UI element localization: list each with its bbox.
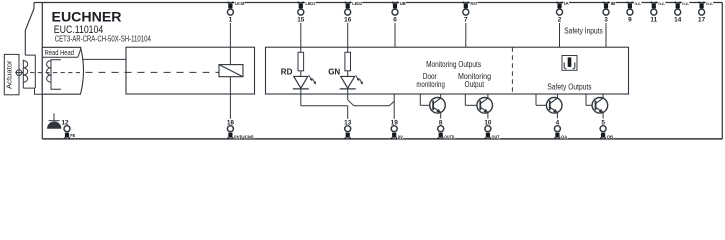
- svg-text:OUTD: OUTD: [444, 134, 455, 139]
- svg-text:LED2: LED2: [352, 1, 362, 6]
- svg-text:Monitoring Outputs: Monitoring Outputs: [426, 60, 481, 69]
- svg-text:LED1: LED1: [305, 1, 315, 6]
- svg-text:CET3-AR-CRA-CH-50X-SH-110104: CET3-AR-CRA-CH-50X-SH-110104: [55, 34, 151, 44]
- svg-text:6: 6: [393, 17, 397, 24]
- svg-text:UB: UB: [400, 1, 407, 6]
- svg-text:0V: 0V: [398, 134, 403, 139]
- svg-text:7: 7: [464, 17, 468, 24]
- svg-text:n.c.: n.c.: [682, 1, 689, 6]
- svg-text:1: 1: [229, 17, 233, 24]
- svg-text:EUCHNER: EUCHNER: [52, 9, 122, 25]
- svg-text:2: 2: [558, 17, 562, 24]
- svg-text:Output: Output: [465, 80, 485, 89]
- svg-text:11: 11: [650, 17, 657, 24]
- svg-text:9: 9: [628, 17, 632, 24]
- svg-text:0V(UCM): 0V(UCM): [234, 134, 254, 139]
- svg-text:17: 17: [698, 17, 706, 24]
- svg-text:RST: RST: [470, 1, 478, 6]
- svg-text:GN: GN: [328, 68, 340, 77]
- svg-text:monitoring: monitoring: [416, 80, 445, 89]
- svg-text:IB: IB: [611, 1, 616, 6]
- svg-text:RD: RD: [281, 68, 293, 77]
- svg-text:14: 14: [674, 17, 682, 24]
- svg-text:n.c.: n.c.: [706, 1, 713, 6]
- svg-text:3: 3: [604, 17, 608, 24]
- svg-text:Safety Outputs: Safety Outputs: [547, 82, 591, 91]
- svg-text:n.c.: n.c.: [658, 1, 665, 6]
- svg-text:Safety Inputs: Safety Inputs: [564, 26, 603, 35]
- svg-text:UCM: UCM: [235, 1, 245, 6]
- svg-text:n.c.: n.c.: [635, 1, 642, 6]
- svg-text:OUT: OUT: [492, 134, 500, 139]
- svg-text:Actuator: Actuator: [7, 60, 14, 89]
- svg-text:Read Head: Read Head: [45, 48, 74, 57]
- svg-text:FE: FE: [70, 133, 75, 138]
- svg-text:15: 15: [297, 17, 305, 24]
- svg-text:16: 16: [344, 17, 352, 24]
- svg-text:IA: IA: [564, 1, 569, 6]
- svg-text:OA: OA: [561, 134, 568, 139]
- svg-text:OB: OB: [607, 134, 614, 139]
